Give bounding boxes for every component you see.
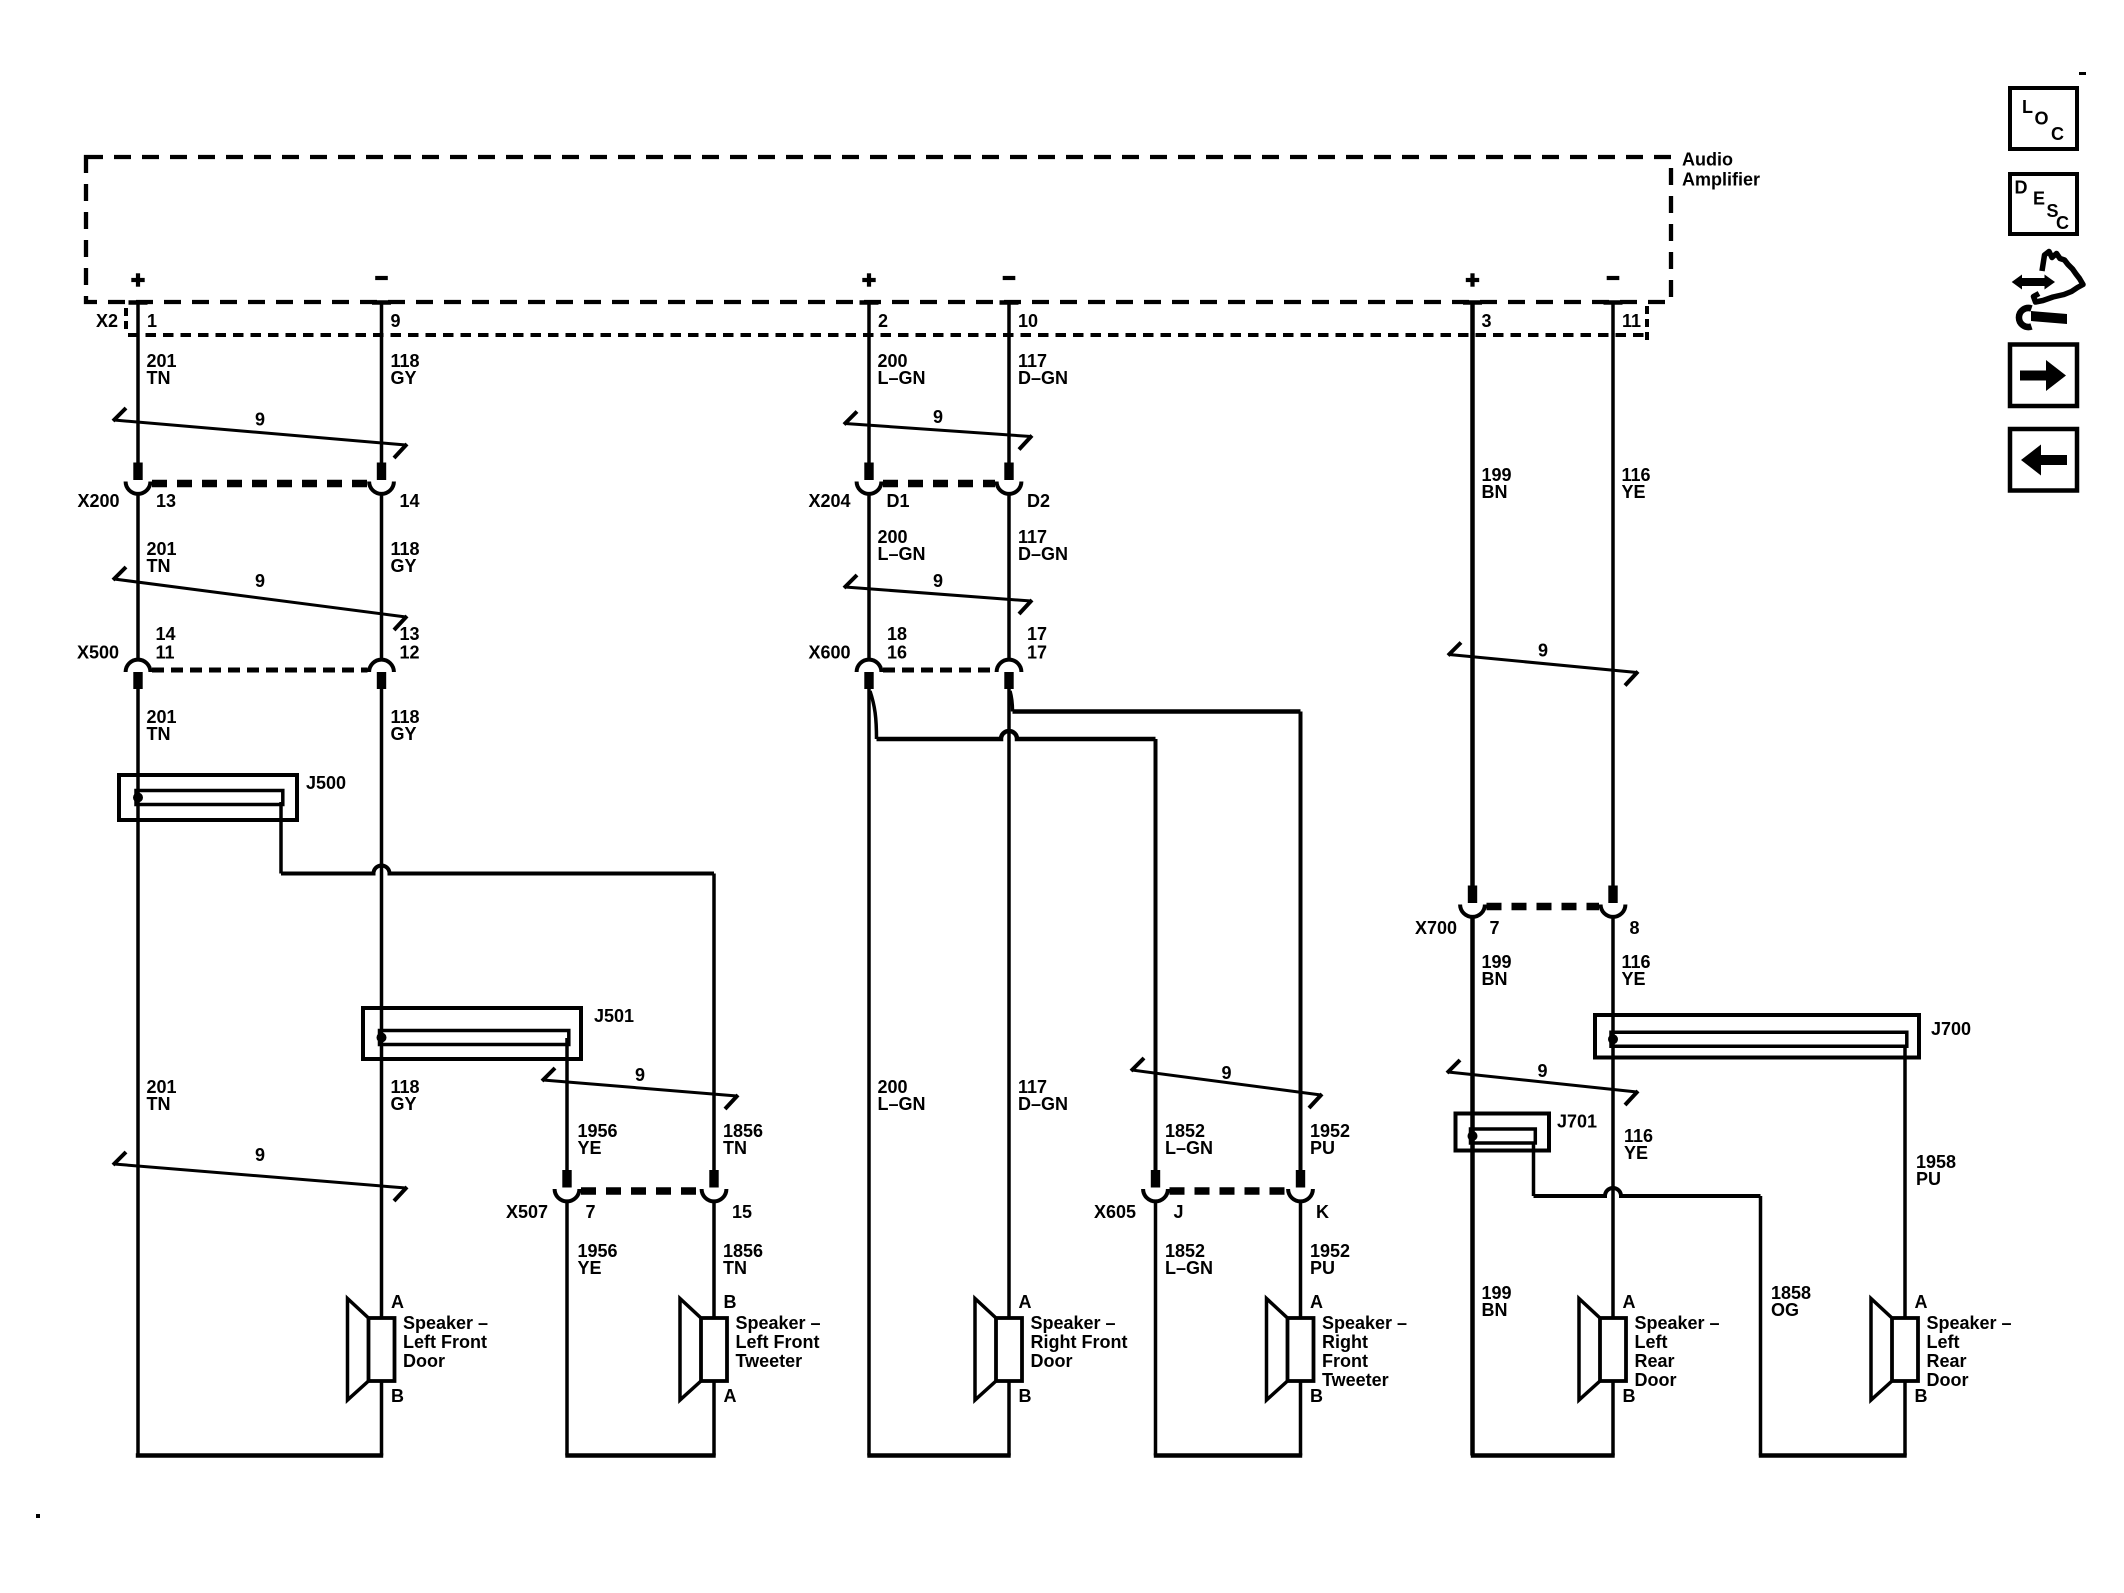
svg-text:16: 16: [887, 643, 907, 663]
svg-text:L–GN: L–GN: [878, 544, 926, 564]
svg-text:X2: X2: [96, 311, 118, 331]
svg-text:14: 14: [156, 624, 176, 644]
svg-text:Door: Door: [1927, 1370, 1969, 1390]
svg-text:YE: YE: [1622, 969, 1646, 989]
svg-text:YE: YE: [578, 1138, 602, 1158]
svg-text:J500: J500: [306, 773, 346, 793]
svg-text:YE: YE: [1624, 1143, 1648, 1163]
svg-text:X200: X200: [77, 491, 119, 511]
svg-text:Speaker –: Speaker –: [736, 1313, 821, 1333]
svg-text:PU: PU: [1310, 1258, 1335, 1278]
svg-text:Speaker –: Speaker –: [1927, 1313, 2012, 1333]
svg-text:10: 10: [1018, 311, 1038, 331]
svg-text:A: A: [391, 1292, 404, 1312]
svg-text:D2: D2: [1027, 491, 1050, 511]
svg-text:PU: PU: [1310, 1138, 1335, 1158]
svg-text:Speaker –: Speaker –: [1031, 1313, 1116, 1333]
svg-text:A: A: [1310, 1292, 1323, 1312]
svg-text:B: B: [724, 1292, 737, 1312]
svg-text:D1: D1: [887, 491, 910, 511]
svg-text:1: 1: [147, 311, 157, 331]
svg-text:GY: GY: [391, 556, 417, 576]
svg-text:TN: TN: [723, 1258, 747, 1278]
svg-text:BN: BN: [1482, 1300, 1508, 1320]
svg-text:11: 11: [156, 643, 175, 663]
svg-text:9: 9: [1537, 1061, 1547, 1081]
svg-text:9: 9: [933, 571, 943, 591]
svg-text:L–GN: L–GN: [878, 1094, 926, 1114]
svg-text:J701: J701: [1557, 1112, 1597, 1132]
svg-text:Front: Front: [1322, 1351, 1368, 1371]
svg-text:9: 9: [255, 410, 265, 430]
svg-text:11: 11: [1622, 311, 1641, 331]
svg-text:Door: Door: [403, 1351, 445, 1371]
svg-text:D–GN: D–GN: [1018, 368, 1068, 388]
svg-text:L–GN: L–GN: [1165, 1138, 1213, 1158]
svg-text:2: 2: [878, 311, 888, 331]
svg-text:Speaker –: Speaker –: [1322, 1313, 1407, 1333]
svg-text:A: A: [1623, 1292, 1636, 1312]
svg-text:BN: BN: [1482, 482, 1508, 502]
svg-text:Tweeter: Tweeter: [736, 1351, 803, 1371]
svg-text:J501: J501: [594, 1006, 634, 1026]
svg-text:Amplifier: Amplifier: [1682, 170, 1760, 190]
svg-text:GY: GY: [391, 368, 417, 388]
svg-text:K: K: [1316, 1202, 1329, 1222]
svg-text:Rear: Rear: [1927, 1351, 1967, 1371]
svg-text:B: B: [1019, 1386, 1032, 1406]
svg-text:Speaker –: Speaker –: [403, 1313, 488, 1333]
svg-text:9: 9: [255, 1145, 265, 1165]
svg-text:X500: X500: [77, 643, 119, 663]
svg-text:Right: Right: [1322, 1332, 1368, 1352]
svg-text:J: J: [1174, 1202, 1184, 1222]
svg-text:YE: YE: [1622, 482, 1646, 502]
svg-text:Left Front: Left Front: [403, 1332, 487, 1352]
svg-text:15: 15: [732, 1202, 752, 1222]
svg-text:18: 18: [887, 624, 907, 644]
svg-text:9: 9: [1538, 641, 1548, 661]
svg-text:3: 3: [1482, 311, 1492, 331]
svg-text:J700: J700: [1931, 1019, 1971, 1039]
svg-text:O: O: [2035, 109, 2049, 129]
svg-text:TN: TN: [147, 556, 171, 576]
svg-text:A: A: [724, 1386, 737, 1406]
svg-text:17: 17: [1027, 643, 1047, 663]
svg-text:X605: X605: [1094, 1202, 1136, 1222]
svg-text:D: D: [2015, 178, 2028, 198]
svg-text:C: C: [2056, 213, 2069, 233]
svg-text:Left: Left: [1635, 1332, 1668, 1352]
svg-text:D–GN: D–GN: [1018, 1094, 1068, 1114]
svg-text:8: 8: [1630, 918, 1640, 938]
svg-text:BN: BN: [1482, 969, 1508, 989]
svg-text:X204: X204: [808, 491, 850, 511]
svg-text:9: 9: [255, 571, 265, 591]
svg-text:TN: TN: [147, 368, 171, 388]
svg-text:A: A: [1019, 1292, 1032, 1312]
svg-text:Right Front: Right Front: [1031, 1332, 1128, 1352]
svg-text:Tweeter: Tweeter: [1322, 1370, 1389, 1390]
svg-text:9: 9: [1221, 1063, 1231, 1083]
svg-text:L–GN: L–GN: [1165, 1258, 1213, 1278]
svg-text:OG: OG: [1771, 1300, 1799, 1320]
svg-text:C: C: [2051, 124, 2064, 144]
svg-text:7: 7: [1490, 918, 1500, 938]
svg-text:12: 12: [400, 643, 420, 663]
svg-text:YE: YE: [578, 1258, 602, 1278]
svg-text:9: 9: [391, 311, 401, 331]
svg-text:E: E: [2033, 189, 2045, 209]
svg-text:17: 17: [1027, 624, 1047, 644]
svg-text:GY: GY: [391, 724, 417, 744]
svg-text:Door: Door: [1635, 1370, 1677, 1390]
svg-text:A: A: [1915, 1292, 1928, 1312]
svg-text:TN: TN: [147, 724, 171, 744]
svg-text:X507: X507: [506, 1202, 548, 1222]
svg-text:13: 13: [400, 624, 420, 644]
svg-text:14: 14: [400, 491, 420, 511]
svg-text:L: L: [2022, 97, 2033, 117]
svg-text:GY: GY: [391, 1094, 417, 1114]
svg-text:9: 9: [933, 407, 943, 427]
svg-text:Rear: Rear: [1635, 1351, 1675, 1371]
svg-text:13: 13: [156, 491, 176, 511]
svg-text:Speaker –: Speaker –: [1635, 1313, 1720, 1333]
svg-text:PU: PU: [1916, 1169, 1941, 1189]
svg-text:X700: X700: [1415, 918, 1457, 938]
svg-text:TN: TN: [147, 1094, 171, 1114]
svg-text:Audio: Audio: [1682, 150, 1733, 170]
svg-text:X600: X600: [808, 643, 850, 663]
svg-text:Left: Left: [1927, 1332, 1960, 1352]
svg-text:Left Front: Left Front: [736, 1332, 820, 1352]
svg-text:9: 9: [635, 1065, 645, 1085]
svg-text:B: B: [391, 1386, 404, 1406]
svg-text:L–GN: L–GN: [878, 368, 926, 388]
svg-text:D–GN: D–GN: [1018, 544, 1068, 564]
svg-text:TN: TN: [723, 1138, 747, 1158]
svg-text:Door: Door: [1031, 1351, 1073, 1371]
svg-text:7: 7: [586, 1202, 596, 1222]
